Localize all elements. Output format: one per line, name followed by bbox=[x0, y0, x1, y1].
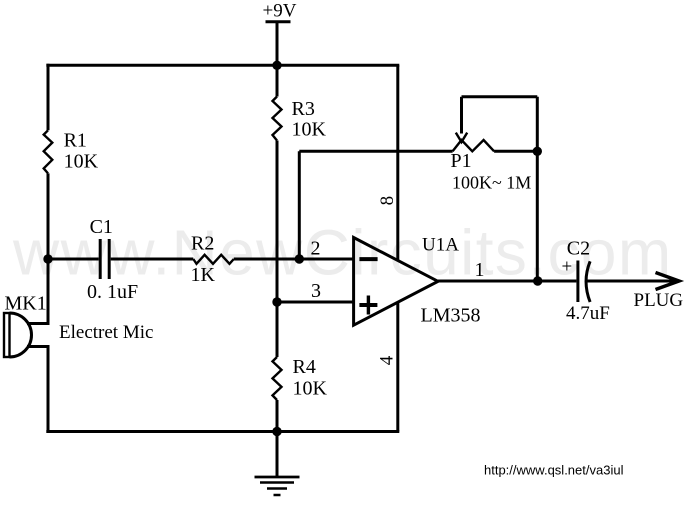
wire output bbox=[438, 280, 576, 283]
svg-text:http://www.qsl.net/va3iul: http://www.qsl.net/va3iul bbox=[484, 463, 624, 478]
svg-text:LM358: LM358 bbox=[421, 305, 481, 327]
wire feedback horizontal bbox=[299, 150, 452, 153]
wire bottom rail bbox=[46, 430, 399, 433]
node junction P1 / feedback bbox=[533, 147, 542, 156]
wire C1 to R2 bbox=[111, 258, 194, 261]
svg-text:C1: C1 bbox=[90, 216, 113, 238]
svg-text:4: 4 bbox=[377, 355, 398, 365]
ground bbox=[255, 432, 300, 496]
svg-text:8: 8 bbox=[377, 196, 398, 206]
wire pin3 bbox=[277, 301, 354, 304]
node junction output / C2 bbox=[533, 276, 542, 285]
svg-text:3: 3 bbox=[311, 280, 321, 302]
wire left rail lower bbox=[47, 347, 50, 434]
node junction top rail / R3 bbox=[272, 61, 281, 70]
svg-text:P1: P1 bbox=[451, 150, 472, 172]
svg-text:10K: 10K bbox=[64, 151, 99, 173]
node junction feedback / pin2 bbox=[295, 254, 304, 263]
wire mic top stub bbox=[27, 322, 50, 325]
svg-text:2: 2 bbox=[311, 238, 321, 260]
svg-text:+: + bbox=[562, 257, 573, 278]
svg-text:0. 1uF: 0. 1uF bbox=[87, 281, 138, 303]
wire P1 loop right vertical down to output bbox=[536, 97, 539, 281]
plug arrowhead bbox=[656, 273, 680, 290]
svg-text:R4: R4 bbox=[293, 356, 316, 378]
wire top rail bbox=[46, 64, 399, 67]
svg-text:MK1: MK1 bbox=[5, 293, 47, 315]
wire P1 loop top bbox=[462, 95, 538, 98]
wire R2 to op-amp pin2 bbox=[234, 258, 354, 261]
wire left rail upper bbox=[47, 64, 50, 131]
svg-text:100K~ 1M: 100K~ 1M bbox=[452, 173, 531, 193]
wire op-amp pin 8 vertical bbox=[396, 65, 399, 260]
svg-text:4.7uF: 4.7uF bbox=[566, 303, 610, 324]
svg-text:R1: R1 bbox=[64, 129, 87, 151]
label pin 8 bbox=[377, 196, 398, 206]
capacitor C1 bbox=[87, 216, 138, 303]
op-amp U1A triangle bbox=[354, 238, 438, 326]
svg-text:10K: 10K bbox=[292, 119, 327, 141]
label pin 4 bbox=[377, 355, 398, 365]
svg-text:PLUG: PLUG bbox=[634, 290, 684, 311]
node junction bottom rail / R4 / ground bbox=[272, 427, 281, 436]
wire left rail middle bbox=[47, 173, 50, 323]
wire middle vertical (R3 to R4) bbox=[276, 141, 279, 358]
node junction pin3 bbox=[272, 297, 281, 306]
wire P1 wiper vertical bbox=[460, 97, 463, 134]
svg-text:1: 1 bbox=[475, 259, 485, 281]
resistor R4 bbox=[273, 356, 328, 400]
wire middle vertical upper (R3 branch) bbox=[276, 65, 279, 96]
resistor R2 bbox=[191, 233, 234, 286]
microphone MK1 bbox=[4, 293, 47, 358]
wire output to plug bbox=[587, 280, 677, 283]
node junction left rail / C1 bbox=[43, 254, 52, 263]
wire signal from rail to C1 bbox=[48, 258, 99, 261]
op-amp minus input bbox=[359, 257, 377, 261]
svg-text:+9V: +9V bbox=[263, 1, 297, 22]
wire middle vertical lower bbox=[276, 400, 279, 432]
power +9V symbol bbox=[263, 1, 297, 66]
wire feedback vertical bbox=[298, 151, 301, 259]
resistor R1 bbox=[44, 129, 99, 173]
svg-text:1K: 1K bbox=[191, 264, 216, 286]
wire op-amp pin 4 vertical bbox=[396, 302, 399, 432]
op-amp plus input bbox=[359, 296, 377, 315]
svg-text:R2: R2 bbox=[191, 233, 214, 255]
svg-text:10K: 10K bbox=[293, 378, 328, 400]
resistor R3 bbox=[273, 97, 327, 141]
capacitor C2 bbox=[562, 238, 610, 325]
svg-text:R3: R3 bbox=[292, 98, 315, 120]
P1 wiper arrowhead bbox=[456, 133, 467, 142]
svg-text:Electret Mic: Electret Mic bbox=[59, 322, 153, 343]
wire P1 right terminal bbox=[494, 150, 537, 153]
potentiometer P1 bbox=[451, 140, 532, 193]
svg-text:U1A: U1A bbox=[422, 235, 459, 256]
wire mic bottom stub bbox=[27, 345, 50, 348]
